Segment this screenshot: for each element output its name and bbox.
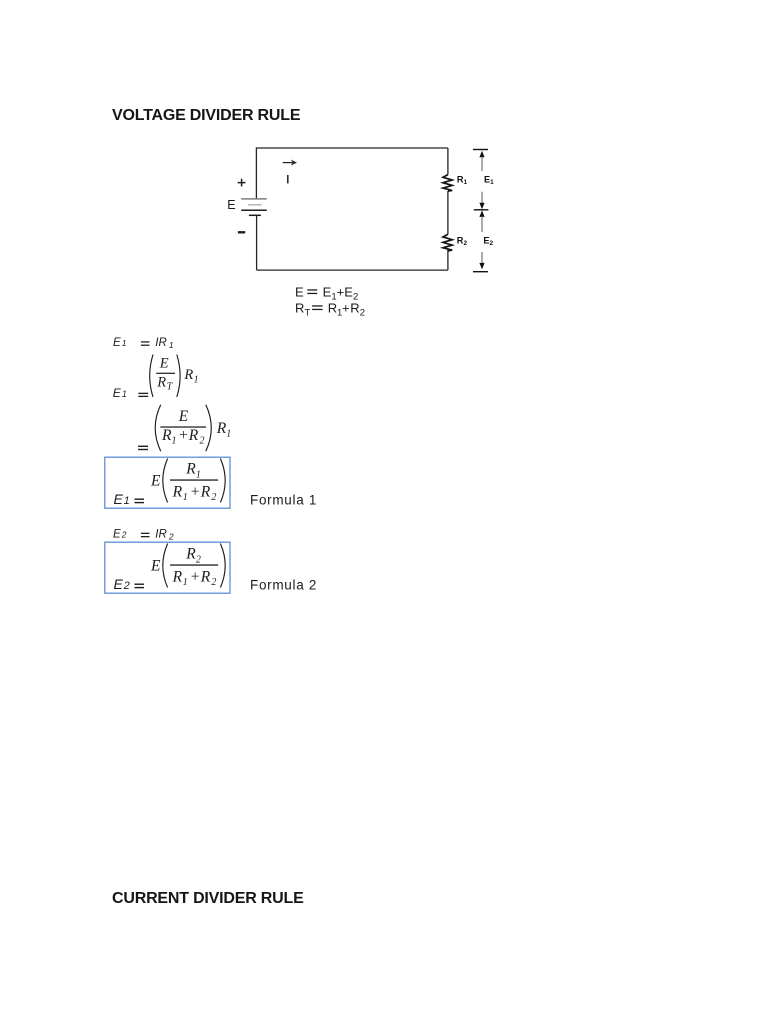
svg-text:Formula 1: Formula 1 (250, 493, 317, 508)
current arrow (283, 162, 293, 164)
svg-text:R2: R2 (457, 236, 468, 248)
svg-text:E: E (114, 576, 124, 592)
blue box (105, 457, 230, 508)
svg-text:R: R (185, 461, 196, 478)
svg-text:R: R (172, 483, 183, 500)
left paren (150, 355, 153, 398)
battery E plate4 short (249, 214, 261, 216)
svg-text:R: R (172, 568, 183, 585)
dimension shaft E1 lower (481, 192, 483, 204)
fraction bar (170, 479, 218, 480)
wire right side upper (447, 148, 449, 175)
equals (135, 584, 145, 585)
right paren (177, 355, 180, 398)
svg-text:E: E (113, 337, 121, 349)
heading CURRENT DIVIDER RULE (112, 891, 304, 907)
derivation row E1 = IR1 (108, 334, 183, 352)
svg-text:2: 2 (200, 436, 205, 447)
svg-text:R: R (161, 427, 172, 444)
equals (141, 533, 150, 534)
svg-text:1: 1 (122, 338, 127, 348)
wire top side (256, 147, 448, 149)
dimension arrow down middle (479, 203, 484, 210)
svg-text:E: E (323, 285, 332, 300)
dimension shaft E1 upper (481, 157, 483, 171)
equals (138, 393, 148, 394)
right paren (220, 459, 225, 503)
wire left side upper (255, 147, 257, 199)
heading VOLTAGE DIVIDER RULE (112, 108, 300, 124)
left paren (163, 544, 168, 588)
wire bottom side (257, 269, 448, 271)
svg-text:T: T (305, 307, 311, 318)
derivation row = (E/(R1+R2))R1 (130, 401, 240, 455)
resistor R1 (443, 175, 452, 192)
current label I (287, 175, 289, 183)
dimension bottom bar (473, 271, 488, 273)
fraction bar (170, 564, 218, 565)
svg-text:E: E (178, 408, 189, 425)
svg-text:R: R (185, 546, 196, 563)
svg-text:+: + (190, 483, 200, 500)
dimension shaft E2 upper (481, 217, 483, 232)
svg-text:R: R (295, 301, 304, 316)
blue box (105, 542, 230, 593)
equals (138, 446, 148, 447)
resistor R2 (443, 234, 452, 251)
svg-text:T: T (167, 382, 174, 393)
right paren (220, 544, 225, 588)
dimension middle bar (474, 209, 489, 211)
equations under circuit (290, 282, 375, 318)
derivation row E1 = (E/RT)R1 (108, 351, 208, 400)
battery plus sign (238, 179, 246, 187)
dimension shaft E2 lower (481, 252, 483, 264)
svg-text:1: 1 (183, 577, 188, 588)
svg-text:1: 1 (183, 492, 188, 503)
svg-text:2: 2 (196, 554, 201, 565)
wire right side lower (447, 249, 449, 270)
svg-text:2: 2 (123, 580, 130, 592)
dimension arrow up top (479, 151, 484, 158)
svg-text:E1: E1 (484, 174, 494, 186)
svg-text:+: + (342, 301, 350, 316)
circuit schematic (220, 138, 510, 285)
svg-text:R: R (183, 367, 193, 383)
svg-text:1: 1 (196, 469, 201, 480)
fraction bar (156, 373, 175, 374)
svg-text:1: 1 (226, 428, 231, 439)
left paren (163, 459, 168, 503)
svg-text:E: E (227, 198, 235, 212)
svg-text:E: E (150, 472, 161, 489)
formula 1 box (100, 452, 330, 514)
battery E plate3 long (241, 209, 267, 211)
svg-text:+: + (190, 568, 200, 585)
svg-text:2: 2 (360, 307, 365, 318)
svg-text:1: 1 (169, 340, 174, 350)
svg-text:E: E (113, 386, 122, 400)
svg-text:R: R (216, 420, 227, 437)
svg-text:E: E (114, 491, 124, 507)
dimension arrow up middle (479, 210, 484, 217)
wire left side lower (256, 215, 258, 270)
svg-text:E: E (150, 557, 161, 574)
battery minus sign (238, 231, 245, 233)
wire right side middle (447, 191, 449, 234)
svg-text:E: E (344, 285, 353, 300)
svg-text:2: 2 (211, 577, 216, 588)
svg-text:R1: R1 (457, 174, 468, 186)
svg-text:E: E (295, 285, 304, 300)
left paren (155, 405, 161, 451)
derivation row E2 = IR2 (108, 525, 183, 543)
dimension arrow down bottom (479, 263, 484, 270)
svg-text:R: R (350, 301, 359, 316)
battery E plate2 short light (248, 204, 262, 206)
equals (141, 341, 150, 342)
svg-text:+: + (178, 427, 188, 444)
fraction bar (160, 426, 206, 427)
svg-text:R: R (200, 568, 211, 585)
svg-text:1: 1 (194, 374, 199, 385)
svg-text:E: E (159, 356, 169, 372)
svg-text:R: R (328, 301, 337, 316)
right paren (206, 405, 212, 451)
battery E plate1 long gray (241, 198, 267, 200)
svg-text:Formula 2: Formula 2 (250, 578, 317, 593)
svg-text:R: R (188, 427, 199, 444)
svg-text:2: 2 (211, 492, 216, 503)
svg-text:1: 1 (122, 389, 127, 399)
svg-text:+: + (337, 285, 345, 300)
equals (135, 499, 145, 500)
svg-text:1: 1 (172, 436, 177, 447)
svg-text:1: 1 (124, 495, 130, 507)
svg-text:R: R (200, 483, 211, 500)
formula 2 box (100, 537, 330, 599)
svg-text:E2: E2 (483, 236, 493, 248)
svg-text:IR: IR (155, 337, 167, 349)
dimension top bar (473, 149, 488, 151)
svg-text:R: R (156, 375, 166, 391)
